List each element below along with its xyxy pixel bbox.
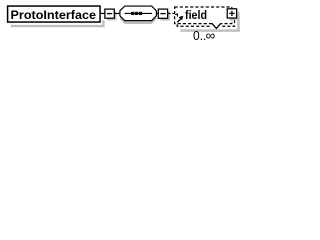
sequence glyph square 1 [131,12,134,15]
sequence glyph square 2 [135,12,138,15]
element reference arrow icon [175,13,177,15]
element field front box [175,7,232,24]
sequence glyph square 3 [139,12,142,15]
expand box (plus) [227,9,236,18]
sequence compositor shadow [120,9,156,24]
element field back box (multiple occurrence) [177,10,234,27]
svg-text:∞: ∞ [206,28,216,43]
expand box (plus) shadow [229,11,238,20]
collapse box 1 shadow [107,11,116,20]
svg-text:ProtoInterface: ProtoInterface [11,8,97,22]
expand box plus sign [229,12,234,14]
collapse box 2 shadow [161,11,170,20]
collapse box 2 (minus) [158,9,167,18]
wire sequence to collapse box 2 [156,12,158,14]
element ProtoInterface box [8,6,100,22]
wire collapse box to sequence [114,12,120,14]
svg-text:field: field [185,8,207,22]
dashed wire collapse box 2 to field element [168,12,175,14]
wire box to collapse box [100,12,105,14]
background [0,0,246,52]
element field back box shadow [237,13,240,32]
occurrence chevron marker [211,25,223,28]
sequence compositor octagon [120,6,156,20]
collapse box 1 minus sign [107,13,112,15]
collapse box 1 (minus) [105,9,114,18]
svg-text:0..: 0.. [193,28,206,43]
element ProtoInterface shadow [11,25,105,27]
collapse box 2 minus sign [160,13,165,15]
sequence glyph line [125,12,153,14]
